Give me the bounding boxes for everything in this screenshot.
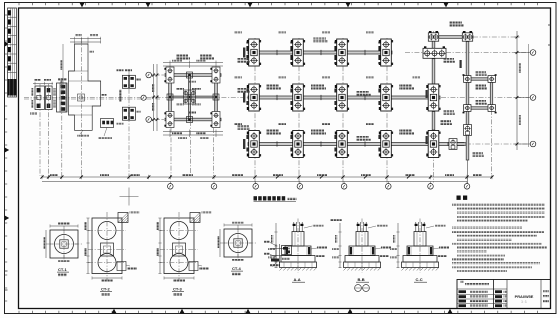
title block left column labels bbox=[459, 290, 489, 307]
two-pile cap ladder top-right bbox=[488, 74, 497, 82]
pile cap cluster row2 colA bbox=[426, 84, 440, 111]
section C-C centerline bbox=[419, 219, 421, 273]
two-pile cap ladder bottom-left bbox=[463, 105, 472, 114]
enlarged detail label top bbox=[176, 55, 188, 57]
enlarged detail corner cap top-left bbox=[164, 67, 174, 83]
footing detail CT-4 square plan bbox=[224, 229, 252, 257]
left ruler triangles bbox=[5, 41, 10, 46]
enlarged detail beam right bbox=[215, 71, 218, 124]
beam label JL row1 span2 bbox=[313, 38, 326, 40]
footing detail CT-1 label bbox=[57, 267, 69, 276]
footing detail CT-3 label bbox=[172, 287, 184, 296]
top ruler ticks bbox=[19, 3, 538, 6]
grid centerline row 1 bbox=[405, 52, 423, 54]
section B-B upper footing step bbox=[349, 246, 375, 256]
grid centerline column B right bbox=[467, 41, 469, 183]
section C-C right leaders bbox=[426, 225, 449, 258]
footing detail CT-3 left dims bbox=[159, 218, 161, 274]
bottom dimension chain line upper bbox=[42, 176, 492, 178]
foundation beam row 1 bbox=[248, 51, 392, 54]
colA tag text bbox=[413, 77, 421, 79]
left margin revision strip table bbox=[8, 8, 17, 97]
bottom ruler ticks bbox=[19, 311, 538, 314]
colA cluster side text row3 bbox=[426, 136, 428, 144]
section C-C upper footing step bbox=[407, 246, 433, 256]
two-pile cap ladder bottom-right bbox=[488, 105, 497, 114]
grid bubble right row2 bbox=[520, 97, 531, 99]
top-right beam vertical upper bbox=[432, 41, 435, 48]
title block header dashes bbox=[465, 283, 489, 285]
enlarged detail centerline row1 bbox=[152, 74, 164, 76]
title block outer rect bbox=[457, 280, 551, 309]
beam label JL row3 span1 bbox=[266, 130, 279, 132]
pile count note row1 bbox=[246, 42, 248, 44]
footing detail CT-4 label bbox=[231, 266, 243, 275]
section C-C left dims bbox=[390, 223, 400, 268]
enlarged detail mid-right footing bbox=[213, 94, 219, 100]
cluster tag texts row3 bbox=[234, 123, 242, 125]
enlarged detail center dim texts bbox=[176, 88, 184, 90]
left detail small footing bbox=[101, 119, 114, 128]
notes title bbox=[457, 196, 468, 200]
pile cap cluster row1 col3 bbox=[335, 39, 349, 66]
footing detail CT-2 label bbox=[100, 287, 112, 296]
grid centerline column x=343 bbox=[342, 38, 344, 183]
section A-A ground hatch bbox=[280, 268, 317, 271]
footing detail CT-3 corner hatched pad bbox=[190, 213, 200, 223]
title block right cell marks bbox=[543, 290, 549, 292]
enlarged detail lower dashed lines bbox=[170, 128, 172, 176]
beam start text row1 bbox=[243, 48, 245, 58]
section A-A centerline bbox=[297, 219, 299, 273]
section B-B detail bubbles bbox=[355, 285, 370, 292]
left detail small footing leader bbox=[104, 128, 107, 137]
section B-B left dims bbox=[332, 223, 342, 268]
footing detail CT-3 bottom dims bbox=[164, 277, 194, 279]
section B-B lower footing step bbox=[345, 256, 379, 263]
svg-text:C-C: C-C bbox=[416, 277, 423, 282]
grid bubble right row3 bbox=[520, 143, 531, 145]
pile cap cluster row1 col2 bbox=[291, 39, 305, 66]
section C-C anchor bolts bbox=[415, 222, 426, 232]
footing detail CT-4 dims bbox=[224, 224, 252, 226]
pile count note row2 bbox=[246, 89, 248, 93]
footing detail CT-1 dims bbox=[50, 225, 78, 227]
enlarged detail center pile group bbox=[183, 90, 195, 104]
footing detail CT-1 square plan bbox=[50, 230, 78, 258]
two-pile cap top-right left bbox=[428, 31, 439, 41]
colA cluster side text row2 bbox=[426, 90, 428, 98]
left detail centerlines vertical bbox=[39, 84, 41, 176]
section A-A column shaft bbox=[292, 232, 304, 247]
label right ladder top bbox=[475, 71, 486, 73]
beam ladder bottom rung bbox=[468, 107, 491, 109]
bottom ruler triangles bbox=[111, 309, 116, 314]
enlarged detail label top2 bbox=[200, 55, 212, 57]
enlarged detail bottom dim lines bbox=[163, 131, 223, 133]
stepped cap centerline vertical bbox=[80, 38, 82, 176]
colB side text bbox=[460, 60, 462, 68]
enlarged detail corner cap top-right bbox=[210, 67, 220, 83]
inner frame centering tick left-bottom bbox=[5, 270, 8, 272]
section B-B anchor bolts bbox=[357, 222, 368, 232]
title block middle column labels bbox=[495, 290, 507, 307]
section B-B label bbox=[356, 277, 369, 282]
pile cap cluster row2 col4 bbox=[379, 84, 393, 111]
section C-C base slab bbox=[402, 262, 439, 268]
stepped cap top dims bbox=[70, 38, 101, 40]
pile cap cluster row2 col2 bbox=[291, 84, 305, 111]
pile cap cluster row3 col3 bbox=[335, 131, 349, 158]
mini footing detail right of CT-4 bbox=[264, 241, 292, 267]
title block vertical dividers bbox=[493, 280, 495, 309]
footing detail CT-3 side pad bbox=[189, 262, 198, 271]
notes text lines bbox=[452, 203, 547, 272]
svg-text:PRAI/W5E: PRAI/W5E bbox=[515, 294, 534, 299]
inner frame centering tick right bbox=[548, 24, 551, 26]
pile count note row3 bbox=[246, 135, 248, 139]
grid centerline column x=299 bbox=[298, 38, 300, 183]
enlarged detail left dim lines bbox=[153, 64, 155, 131]
svg-text:B-B: B-B bbox=[358, 277, 365, 282]
beam label JL row3 span3 bbox=[356, 136, 369, 138]
stepped cap side dims bbox=[60, 60, 62, 70]
beam label JL row2 span1 bbox=[266, 85, 279, 87]
left detail right cluster lower dims bbox=[117, 123, 124, 125]
left detail stepped pile cap outline bbox=[69, 44, 101, 130]
beam midspan ticks bbox=[277, 50, 365, 147]
top-right beam horizontal bbox=[429, 36, 473, 39]
pile cap cluster row2 col3 bbox=[335, 84, 349, 111]
enlarged detail corner cap bottom-right bbox=[210, 112, 220, 128]
enlarged detail centerline row2 bbox=[152, 119, 164, 121]
beam ladder right stile bbox=[490, 79, 492, 108]
enlarged detail beam bottom bbox=[165, 118, 221, 121]
section B-B right leaders bbox=[368, 225, 391, 258]
left detail pair footing B bbox=[45, 86, 52, 110]
grid centerline far-right column bbox=[491, 110, 493, 177]
right extension line bbox=[528, 44, 530, 147]
beam label JL row2 span2 bbox=[311, 85, 324, 87]
colB label stack bbox=[443, 58, 454, 60]
cluster tag texts row2 bbox=[234, 77, 242, 79]
pile cap cluster row3 col2 bbox=[291, 131, 305, 158]
label colB lower bbox=[472, 152, 483, 154]
enlarged detail beam top bbox=[165, 74, 221, 77]
grid bubble right row1 bbox=[520, 52, 531, 54]
section C-C lower footing step bbox=[403, 256, 437, 263]
section B-B ground hatch bbox=[344, 268, 381, 271]
grid centerline row 3 bbox=[466, 143, 529, 145]
pile cap cluster row1 col4 bbox=[379, 39, 393, 66]
two-pile cap ladder top-left bbox=[463, 74, 472, 82]
footing detail CT-2 centerlines bbox=[106, 212, 108, 280]
bottom dimension chain line lower bbox=[42, 181, 467, 183]
label right ladder mid bbox=[475, 85, 486, 87]
svg-text:CT-1: CT-1 bbox=[58, 267, 67, 272]
section B-B centerline bbox=[361, 219, 363, 273]
grid centerline column x=255 bbox=[254, 38, 256, 183]
cluster tag texts row1 bbox=[234, 32, 242, 34]
grid centerline top-right row bbox=[473, 36, 516, 38]
stepped cap internal lines bbox=[69, 80, 89, 82]
pile cap cluster row3 col1 bbox=[247, 131, 261, 158]
left detail right cluster upper dims bbox=[117, 69, 124, 71]
pile cap cluster row3 col4 bbox=[379, 131, 393, 158]
left detail grid bubble mid row bbox=[141, 95, 146, 100]
section B-B column shaft bbox=[356, 232, 368, 247]
beam vertical column A lower bbox=[432, 112, 435, 131]
elevation note between sections bbox=[330, 219, 342, 221]
enlarged detail corner cap bottom-left bbox=[164, 112, 174, 128]
left detail right cluster upper bbox=[122, 75, 135, 88]
section C-C label bbox=[414, 277, 427, 282]
beam vertical column A mid bbox=[432, 59, 435, 84]
beam label JL row2 span4 bbox=[399, 85, 412, 87]
section A-A upper footing step bbox=[285, 246, 311, 256]
enlarged detail grid bubble 1 bbox=[146, 72, 152, 78]
bottom dimension texts bbox=[50, 174, 58, 176]
left detail strip footing bbox=[57, 83, 68, 112]
pile cap cluster row2 col1 bbox=[247, 84, 261, 111]
stepped cap leader note bbox=[80, 130, 83, 134]
two-pile cap top-right right bbox=[462, 31, 473, 41]
grid centerline row 2 bbox=[24, 97, 248, 99]
section B-B base slab bbox=[344, 262, 381, 268]
footing detail CT-2 side pad bbox=[117, 262, 126, 271]
beam start text row2 bbox=[243, 93, 245, 103]
section A-A anchor bolts bbox=[293, 222, 304, 232]
beam ladder top rung bbox=[468, 78, 491, 80]
enlarged detail bottom sub texts bbox=[178, 137, 187, 139]
beam label JL row3 span2 bbox=[311, 130, 324, 132]
title block row lines bbox=[457, 288, 507, 290]
stepped cap right tick texts bbox=[89, 51, 94, 53]
grid centerline column A right bbox=[433, 31, 435, 183]
small pile cap row3 spur bbox=[449, 139, 457, 150]
three-pile cap column A row1 bbox=[423, 46, 446, 58]
foundation beam row 3 bbox=[248, 143, 464, 146]
beam spur row3 right bbox=[448, 143, 466, 146]
beam start text row3 bbox=[243, 139, 245, 149]
left detail centerline horizontal bbox=[24, 98, 160, 100]
enlarged detail beam internal vertical bbox=[189, 75, 191, 120]
centering cross below plan bbox=[120, 196, 139, 198]
beam label JL top-right bbox=[449, 22, 462, 24]
section A-A label bbox=[292, 277, 305, 282]
title block project name bbox=[515, 294, 534, 304]
beam label JL row3 span4 bbox=[399, 130, 412, 132]
top ruler triangles bbox=[79, 3, 84, 8]
pile cap cluster row1 col1 bbox=[247, 39, 261, 66]
small pile cap on column B bbox=[464, 125, 472, 136]
footing detail CT-3 rect plan bbox=[164, 218, 194, 274]
enlarged detail top dim lines bbox=[163, 62, 223, 64]
enlarged detail mid-left footing bbox=[167, 94, 173, 100]
enlarged detail beam internal horizontal bbox=[170, 96, 216, 98]
right vertical dimension line bbox=[516, 31, 518, 150]
svg-text:1 : 1: 1 : 1 bbox=[521, 300, 527, 304]
left detail mid dim text column bbox=[119, 90, 121, 102]
svg-text:CT-4: CT-4 bbox=[232, 266, 241, 271]
enlarged detail grid bubble 2 bbox=[146, 117, 152, 123]
grid bubbles bottom row bbox=[169, 182, 171, 184]
enlarged detail mid-bottom footing bbox=[187, 117, 193, 123]
plan title text bbox=[254, 196, 297, 201]
footing detail CT-2 corner hatched pad bbox=[118, 213, 128, 223]
grid centerline column x=387 bbox=[386, 38, 388, 183]
svg-text:A-A: A-A bbox=[294, 277, 301, 282]
beam vertical column B bbox=[466, 42, 469, 161]
enlarged detail right labels bbox=[237, 58, 249, 60]
left detail right cluster lower bbox=[122, 107, 135, 120]
foundation beam row 2 bbox=[248, 96, 440, 99]
beam label JL row2 span3 bbox=[356, 91, 369, 93]
footing detail CT-4 centerlines bbox=[220, 242, 256, 244]
footing detail CT-3 centerlines bbox=[178, 212, 180, 280]
section C-C column shaft bbox=[414, 232, 426, 247]
bottom dimension ticks bbox=[40, 175, 493, 179]
section A-A right leaders bbox=[304, 225, 327, 258]
section A-A base slab bbox=[280, 262, 317, 268]
label colA mid bbox=[440, 120, 451, 122]
enlarged detail beam left bbox=[169, 71, 172, 124]
left ruler ticks bbox=[5, 15, 8, 301]
footing detail CT-2 left dims bbox=[87, 218, 89, 274]
section A-A left dims bbox=[268, 223, 278, 268]
left detail strip dims bbox=[58, 78, 67, 80]
footing detail CT-2 bottom dims bbox=[92, 277, 122, 279]
footing detail CT-2 rect plan bbox=[92, 218, 122, 274]
left detail pair dims bbox=[33, 83, 53, 85]
pile cap cluster row3 colA bbox=[426, 131, 440, 158]
left detail pair footing A bbox=[35, 86, 44, 110]
section A-A lower footing step bbox=[281, 256, 315, 263]
footing detail CT-1 centerlines bbox=[46, 243, 82, 245]
svg-text:CT-2: CT-2 bbox=[101, 287, 110, 292]
section C-C ground hatch bbox=[402, 268, 439, 271]
svg-text:CT-3: CT-3 bbox=[173, 287, 182, 292]
label right ladder bottom2 bbox=[475, 100, 486, 102]
enlarged detail mid-top footing bbox=[187, 72, 193, 78]
